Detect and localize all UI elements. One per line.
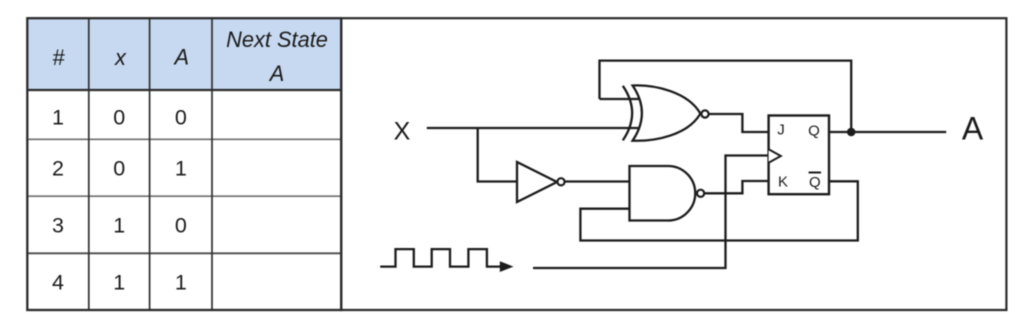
svg-text:Q: Q xyxy=(809,174,821,191)
XNOR gate U1 extra input arc xyxy=(623,86,632,141)
svg-text:0: 0 xyxy=(175,105,187,129)
svg-text:Q: Q xyxy=(808,123,820,140)
XNOR gate U1 body xyxy=(633,85,701,140)
JK flip-flop U4 box xyxy=(769,116,829,195)
truth table column line 1 xyxy=(88,18,90,310)
truth table column line 3 xyxy=(211,18,213,310)
svg-text:X: X xyxy=(394,117,411,145)
svg-text:0: 0 xyxy=(113,156,125,180)
XNOR gate U1 output bubble xyxy=(701,110,708,117)
wire branch from X down to inverter xyxy=(478,128,517,182)
circuit frame xyxy=(341,18,1006,310)
wire Qbar feedback to NAND lower input xyxy=(580,181,857,240)
wire clock to flip-flop clock pin xyxy=(533,156,769,269)
svg-text:Next State: Next State xyxy=(226,27,328,52)
svg-text:#: # xyxy=(52,45,65,70)
wire feedback Q to XNOR (top) xyxy=(600,61,852,132)
svg-text:2: 2 xyxy=(52,156,64,180)
NAND gate U3 body xyxy=(630,166,696,221)
svg-text:4: 4 xyxy=(52,270,64,294)
svg-text:0: 0 xyxy=(113,105,125,129)
svg-text:K: K xyxy=(778,173,788,190)
svg-text:3: 3 xyxy=(52,213,64,237)
junction node dot on Q output xyxy=(847,128,856,137)
inverter U2 bubble xyxy=(557,178,564,185)
svg-text:1: 1 xyxy=(52,105,64,129)
wire NAND output to K input xyxy=(704,181,769,193)
svg-text:x: x xyxy=(114,45,127,70)
truth table outer border xyxy=(27,18,341,310)
truth table header bottom line xyxy=(27,89,341,91)
clock arrowhead xyxy=(500,261,514,272)
wire XNOR top input stub xyxy=(600,98,642,100)
svg-text:1: 1 xyxy=(113,213,125,237)
wire XNOR output to J input xyxy=(709,114,769,132)
svg-text:A: A xyxy=(962,111,984,147)
svg-text:A: A xyxy=(173,44,190,69)
svg-text:1: 1 xyxy=(175,270,187,294)
truth table inner row line 3 xyxy=(27,252,341,254)
clock square wave xyxy=(380,249,501,267)
truth table header fill xyxy=(27,18,341,90)
svg-text:A: A xyxy=(268,61,285,86)
node X input wire xyxy=(427,127,641,129)
truth table column line 2 xyxy=(149,18,151,310)
wire inverter output to NAND upper input xyxy=(565,180,630,182)
svg-text:1: 1 xyxy=(113,270,125,294)
inverter U2 triangle xyxy=(517,162,557,202)
truth table inner row line 2 xyxy=(27,195,341,197)
svg-text:0: 0 xyxy=(175,213,187,237)
truth table inner row line 1 xyxy=(27,138,341,140)
wire Q output to A xyxy=(829,131,946,133)
svg-text:J: J xyxy=(777,121,785,138)
flip-flop clock triangle xyxy=(769,149,781,163)
NAND gate U3 output bubble xyxy=(697,190,704,197)
svg-text:1: 1 xyxy=(175,156,187,180)
